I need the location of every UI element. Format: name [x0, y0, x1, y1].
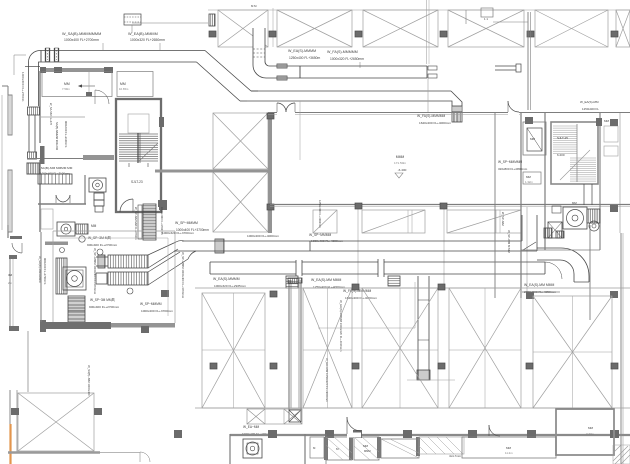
stair2 treads	[553, 126, 596, 181]
skylight bay T1	[218, 10, 268, 47]
grille G2	[68, 296, 85, 327]
bottom left rooms walls	[230, 434, 326, 464]
stall rot text2	[501, 212, 505, 226]
leader	[359, 62, 361, 68]
wall top-left horiz	[40, 68, 113, 72]
bottom right room	[556, 409, 614, 455]
duct A elbow	[29, 51, 41, 67]
label duct A size	[64, 38, 99, 42]
vert label V2	[507, 230, 511, 253]
left wall x38 lower	[40, 232, 42, 322]
left room label	[8, 273, 13, 285]
wall x270	[268, 115, 272, 233]
room 1 partition	[86, 72, 92, 96]
duct6 seg2 bottom	[302, 273, 378, 275]
silencer transition 2	[148, 252, 188, 285]
svg-text:W_SP~MM MM FL+2700m: W_SP~MM MM FL+2700m	[134, 207, 138, 240]
wall bar lower-left	[45, 242, 68, 246]
svg-text:MM: MM	[530, 137, 535, 141]
duct C branch stub	[495, 64, 521, 72]
mech room inner walls	[53, 231, 175, 323]
skylight bay T6	[616, 10, 630, 47]
svg-text:W_SP~MMMM: W_SP~MMMM	[140, 302, 162, 306]
bottom door arc2	[489, 425, 500, 436]
top edge line	[208, 9, 630, 11]
grille thin	[138, 205, 142, 239]
grid vline x427	[427, 0, 430, 64]
bl bottom wall2	[100, 452, 140, 454]
column mid-5	[526, 363, 533, 369]
column c1	[267, 113, 274, 119]
bottom room hatch 2	[354, 437, 379, 460]
column mid-2	[270, 363, 277, 369]
right room AHU	[527, 128, 542, 151]
label duct6-1b	[214, 284, 246, 288]
main wall y112b	[268, 114, 520, 116]
label duct6-3	[343, 289, 371, 293]
xbox C1	[213, 113, 268, 169]
room 1 arrow	[79, 85, 95, 87]
svg-text:MM: MM	[91, 224, 97, 228]
corridor wall y117	[41, 116, 85, 118]
stair2 label	[557, 136, 568, 140]
cluster fan big	[563, 207, 587, 229]
svg-text:320x800 FL+0800mm: 320x800 FL+0800mm	[498, 167, 528, 171]
svg-text:7.59m: 7.59m	[62, 87, 70, 91]
wall y204	[270, 204, 630, 206]
svg-text:W_SA(B)-MMMMMMM: W_SA(B)-MMMMMMM	[62, 32, 101, 36]
AHU F3	[63, 267, 86, 290]
duct B drop hatch	[452, 112, 462, 122]
label bottom EA	[243, 425, 260, 429]
svg-text:MM: MM	[64, 82, 70, 86]
stall row box 3	[447, 210, 521, 233]
right wall y250	[521, 249, 600, 251]
svg-text:W_FA(S)-MMMMM: W_FA(S)-MMMMM	[417, 114, 445, 118]
svg-text:1000x320 FL+2650mm: 1000x320 FL+2650mm	[130, 38, 165, 42]
stair treads	[119, 134, 158, 161]
left rot text	[38, 256, 47, 285]
duct C end cap	[427, 66, 437, 78]
svg-text:W_SA-MM FL+270: W_SA-MM FL+270	[49, 103, 53, 126]
cluster pump	[589, 221, 599, 231]
vert label V0	[339, 300, 343, 352]
right vert text	[604, 119, 609, 123]
svg-text:1000x400 FL+4000mm: 1000x400 FL+4000mm	[311, 239, 343, 243]
duct A bottom line	[40, 61, 197, 63]
label duct6-2	[311, 278, 341, 282]
bl bottom wall	[8, 451, 100, 453]
duct B drop flange	[452, 106, 462, 112]
duct V2 lines	[418, 276, 429, 380]
left wall lower	[10, 255, 13, 330]
room 2 label	[119, 82, 129, 91]
bottom room 3	[381, 439, 419, 458]
svg-text:1250x400 FL+3650m: 1250x400 FL+3650m	[289, 56, 321, 60]
svg-text:900x400 FL+2700mm: 900x400 FL+2700mm	[43, 258, 47, 285]
label duct A2 size	[130, 38, 165, 42]
svg-text:1000x400 FL+2700mm: 1000x400 FL+2700mm	[64, 38, 99, 42]
svg-text:W_SP~3M MM风: W_SP~3M MM风	[90, 298, 116, 302]
corridor label SA	[38, 166, 73, 170]
silencer train 1	[108, 255, 148, 268]
svg-text:1000x400 FL+3700mm: 1000x400 FL+3700mm	[141, 309, 173, 313]
svg-text:W_EA(S)-MMMM: W_EA(S)-MMMM	[213, 277, 240, 281]
leader	[159, 43, 161, 50]
right corridor line x620	[619, 113, 621, 233]
label duct5-2	[309, 233, 332, 237]
parking bay B4	[449, 288, 521, 408]
label W_FA(S) size	[330, 57, 364, 61]
skylight bay T4	[448, 10, 524, 47]
svg-text:W_SP~MMM 1000x400 FL+3700mm: W_SP~MMM 1000x400 FL+3700mm	[93, 248, 97, 295]
grid vline x527	[526, 207, 528, 296]
cluster damper small	[556, 231, 564, 238]
column mid-1	[210, 363, 217, 369]
duct A top line	[40, 50, 205, 52]
dark grille box	[27, 163, 39, 174]
stair col right	[159, 117, 164, 127]
cluster label	[572, 201, 577, 205]
duct C bottom line	[266, 77, 427, 79]
svg-text:900x400 FL+2700mm: 900x400 FL+2700mm	[87, 243, 118, 247]
wall band M	[111, 323, 175, 328]
bottom room hatch 1	[326, 437, 352, 460]
V2 leader	[407, 379, 455, 381]
wall col block 1	[40, 67, 46, 73]
svg-text:11.2m: 11.2m	[505, 451, 513, 455]
svg-text:1 1: 1 1	[484, 17, 488, 21]
bottom room labels	[336, 444, 370, 453]
duct C dashed rungs	[253, 49, 265, 57]
machine room label	[91, 224, 97, 228]
silencer transition 1	[148, 242, 178, 268]
col far right	[610, 119, 618, 126]
wall col block 3	[104, 67, 113, 73]
mech inner wall2	[60, 238, 168, 316]
column bottom	[268, 430, 277, 438]
VAV box (dashed)	[124, 14, 141, 25]
right small label	[525, 175, 533, 184]
AHU F3 inner	[66, 270, 83, 287]
wall box left	[41, 209, 53, 229]
bottom door arc	[347, 417, 361, 434]
svg-text:1000x400 FL+2700m: 1000x400 FL+2700m	[21, 72, 25, 102]
grid line vertical	[272, 8, 274, 47]
bottom door gap	[347, 433, 361, 438]
stair stringer	[138, 133, 140, 163]
wall mech vert	[84, 175, 86, 204]
label W_EA(S) size	[289, 56, 321, 60]
label bottom EA2	[242, 432, 272, 436]
atrium label3	[398, 168, 407, 172]
column upper row	[270, 284, 445, 297]
column bottom	[527, 430, 536, 438]
duct diag lower line	[197, 62, 241, 101]
wall y408	[195, 407, 630, 409]
column bottom R	[610, 430, 619, 438]
label duct6-3b	[345, 296, 377, 300]
duct diag upper line	[205, 51, 251, 92]
grille G2b	[56, 258, 67, 294]
svg-text:SJLT-25: SJLT-25	[557, 136, 568, 140]
label duct6-1	[213, 277, 240, 281]
bottom hatch strip	[419, 437, 464, 454]
duct B turn-down chamfer	[441, 91, 462, 106]
svg-text:1000x400 FL+4000mm: 1000x400 FL+4000mm	[247, 234, 279, 238]
svg-text:900x400 FL+2700mm: 900x400 FL+2700mm	[89, 305, 120, 309]
svg-text:7.73m: 7.73m	[586, 432, 595, 436]
duct B chamfer	[240, 91, 258, 101]
duct6 damper stack	[286, 276, 298, 288]
svg-text:W_SP~MMM 1000x400 FL+3700mm: W_SP~MMM 1000x400 FL+3700mm	[181, 252, 185, 299]
right room box	[523, 122, 546, 155]
corridor label SA2	[40, 172, 70, 176]
br room inner	[556, 408, 614, 410]
xbox C2	[213, 172, 268, 232]
svg-text:W_EA(S)-MM MMM: W_EA(S)-MM MMM	[524, 283, 554, 287]
room 1 label	[62, 82, 70, 91]
svg-text:171.50m: 171.50m	[394, 161, 406, 165]
train2 left box	[96, 273, 107, 284]
right wall x600	[599, 113, 601, 250]
label SP mid2	[89, 305, 120, 309]
atrium label1	[396, 155, 405, 159]
vert text grille-R	[160, 207, 164, 235]
double door	[56, 195, 70, 203]
cluster duct down	[584, 184, 592, 205]
duct6 flange mid	[296, 260, 302, 276]
label SP mid3	[140, 302, 162, 306]
small circles	[60, 248, 134, 295]
column mid-3	[352, 363, 359, 369]
stair door arc	[120, 199, 133, 212]
train1 left duct	[96, 255, 108, 268]
column top-6	[611, 31, 618, 37]
skylight bay T5	[535, 10, 608, 47]
label duct5-1	[247, 234, 279, 238]
duct A start flange	[40, 51, 42, 63]
svg-text:MM: MM	[588, 426, 593, 430]
duct6 seg4	[470, 262, 545, 274]
label小 SP2	[87, 243, 118, 247]
dark block	[158, 200, 166, 207]
stair arrow diagonal	[138, 143, 158, 162]
bottom mid label	[505, 446, 513, 455]
door right	[508, 101, 519, 112]
equip compartments	[38, 174, 72, 184]
parking bay B2	[303, 288, 352, 408]
svg-text:-6.400: -6.400	[398, 168, 407, 172]
duct C white underlay	[253, 28, 265, 61]
right wall x545	[544, 113, 546, 250]
svg-text:MMM: MMM	[396, 155, 405, 159]
label SP mid	[90, 298, 116, 302]
label duct5-2b	[311, 239, 343, 243]
duct5 elbow	[176, 241, 196, 259]
duct6 seg2 top	[302, 261, 378, 263]
right top stub	[481, 8, 493, 21]
skylight bay T3	[363, 10, 438, 47]
label SP right	[175, 221, 198, 225]
duct V1 foot	[289, 410, 301, 422]
label duct6-Rb	[522, 290, 560, 294]
svg-text:W_EA(S)-MMMM: W_EA(S)-MMMM	[288, 49, 316, 53]
label小 SP	[88, 236, 112, 240]
door gap right	[508, 110, 519, 116]
vert text x172	[93, 248, 97, 295]
left duct damper	[28, 107, 40, 115]
corridor dark bar	[40, 146, 45, 164]
stair2 arrow	[560, 150, 590, 180]
column top-3	[355, 31, 362, 37]
right room label	[530, 137, 535, 141]
dark sq 1	[161, 290, 169, 297]
svg-text:2m: 2m	[8, 281, 13, 285]
roof corner boxes	[247, 409, 302, 424]
label 4x4	[449, 454, 462, 458]
svg-text:10.65m: 10.65m	[119, 87, 129, 91]
svg-text:900x400 FL+3100mm: 900x400 FL+3100mm	[64, 121, 68, 148]
bl vert text	[87, 365, 91, 396]
duct5 tick	[309, 241, 311, 251]
flue stripes bay1	[209, 14, 215, 26]
stall row box 2	[362, 210, 425, 233]
door gap center	[277, 110, 295, 116]
stall rot text	[318, 200, 322, 228]
column top-1	[209, 31, 216, 37]
wall window x12	[8, 95, 12, 135]
leader	[102, 43, 104, 50]
svg-text:W_EA(S)-MM: W_EA(S)-MM	[580, 100, 599, 104]
svg-text:SJLT-23: SJLT-23	[131, 180, 143, 184]
label duct A2 name	[128, 32, 158, 36]
left wall cap top	[9, 255, 17, 259]
V1 leader	[318, 282, 415, 328]
riser stack	[94, 193, 104, 212]
column m2	[440, 203, 447, 209]
svg-text:1.32m: 1.32m	[525, 180, 533, 184]
small col bottoms	[174, 430, 182, 438]
duct5 top	[182, 240, 522, 242]
label EA midb	[419, 121, 451, 125]
svg-text:MM: MM	[363, 444, 368, 448]
duct B bottom line	[247, 100, 441, 102]
column m1	[355, 203, 362, 209]
column mid-4	[438, 363, 445, 369]
right room wall x495	[494, 113, 496, 298]
svg-text:1250x400 FL+4000mm: 1250x400 FL+4000mm	[318, 200, 322, 228]
stair outer wall	[116, 99, 161, 212]
room 1 outline	[42, 72, 112, 97]
left corner wall L	[8, 225, 22, 239]
grid vline x358	[357, 207, 359, 288]
right label SP2	[498, 167, 528, 171]
duct5 vert text	[181, 252, 185, 299]
duct6 end cap	[544, 262, 546, 274]
svg-text:1000x320 FL+3700mm: 1000x320 FL+3700mm	[162, 231, 194, 235]
svg-text:1000x320 FL+2650mm: 1000x320 FL+2650mm	[330, 57, 364, 61]
bottom small rooms	[310, 437, 324, 458]
label W_EA(S) name	[288, 49, 316, 53]
wall left vert x40	[39, 71, 41, 143]
atrium leader	[299, 101, 301, 160]
parking bay B3	[362, 288, 438, 408]
label duct A name	[62, 32, 101, 36]
label SP mid4	[141, 309, 173, 313]
left wall cap bot	[9, 326, 19, 331]
wall y288	[195, 287, 630, 289]
svg-text:W_EA~MM: W_EA~MM	[243, 425, 260, 429]
duct5 east stub	[537, 248, 561, 260]
svg-text:W_FA(S)-MMMMM: W_FA(S)-MMMMM	[327, 50, 358, 54]
bottom wall y434	[230, 434, 630, 436]
wall left vert x40b	[39, 160, 41, 232]
svg-text:1620x400 FL+4000mm: 1620x400 FL+4000mm	[345, 296, 377, 300]
svg-text:W_EA(B)-MMMM: W_EA(B)-MMMM	[128, 32, 158, 36]
svg-text:1620x400 FL+4000mm: 1620x400 FL+4000mm	[419, 121, 451, 125]
stair2 mid wall	[576, 124, 578, 182]
label SP right2	[176, 228, 209, 232]
column mid-6	[611, 363, 618, 369]
svg-text:MM: MM	[604, 119, 609, 123]
duct A damper 1	[46, 48, 50, 62]
right room wall x520	[520, 113, 522, 298]
duct V2 ticks	[418, 300, 429, 340]
duct V1 lines	[289, 280, 301, 410]
left duct damper2	[28, 152, 37, 159]
svg-text:SA(B)-MMMM 900x400: SA(B)-MMMM 900x400	[55, 122, 59, 151]
label EA mid	[417, 114, 445, 118]
svg-text:W_EA(S)-MM MMM: W_EA(S)-MM MMM	[311, 278, 341, 282]
left duct vertical	[25, 66, 40, 106]
parking bay B1	[202, 293, 265, 408]
column c2	[267, 204, 274, 210]
col right wall	[596, 118, 602, 126]
right wall x621	[621, 233, 623, 464]
duct6 branch box	[388, 276, 400, 286]
stair tick marks	[129, 163, 148, 167]
wall y171	[155, 170, 268, 173]
corner hatch	[613, 445, 630, 464]
duct C top line	[270, 65, 428, 67]
silencer F2 out	[76, 224, 88, 234]
right small room	[523, 172, 541, 184]
fan unit F2	[57, 222, 75, 236]
wall col block 2	[54, 67, 62, 73]
cluster box2	[548, 222, 562, 238]
col far right2	[610, 205, 618, 212]
duct V2 foot	[417, 370, 430, 380]
outer wall face x2	[1, 95, 3, 230]
svg-text:W_S3(B)~MM 1000x400: W_S3(B)~MM 1000x400	[87, 365, 91, 396]
duct B top line	[251, 90, 451, 92]
leader line	[131, 25, 133, 33]
column bottom	[468, 430, 477, 438]
duct V1 cap	[288, 278, 302, 283]
left leader	[14, 55, 26, 75]
duct C flange	[299, 66, 301, 78]
stair bottom dark block	[159, 200, 167, 210]
bottom-left xbox	[18, 393, 94, 451]
vert text grille-L	[134, 207, 138, 240]
right strip box2	[604, 146, 618, 156]
duct5 damper	[215, 239, 224, 253]
svg-text:M M: M M	[251, 4, 257, 8]
svg-text:_SA(B)-MM MMMM MM: _SA(B)-MM MMMM MM	[38, 166, 73, 170]
left vert text	[21, 72, 25, 102]
left wall x40 block	[40, 320, 46, 332]
